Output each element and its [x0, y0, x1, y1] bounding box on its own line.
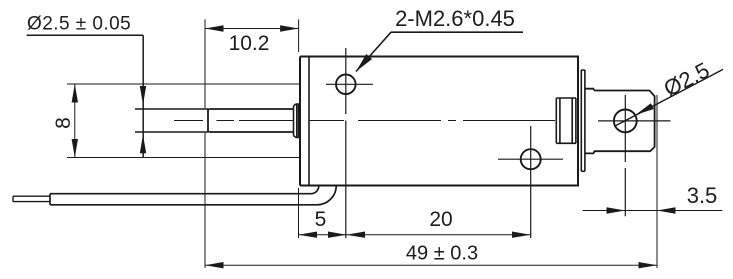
- label 2-M2.6 leader: [356, 32, 523, 71]
- plunger shaft: [208, 109, 294, 132]
- dimension 20: [347, 234, 531, 236]
- dimension 10.2: [205, 19, 299, 268]
- svg-text:Ø2.5 ± 0.05: Ø2.5 ± 0.05: [27, 14, 131, 35]
- svg-text:10.2: 10.2: [229, 32, 270, 55]
- hole M2.6 lower crosshair: [498, 126, 563, 238]
- right plate flange: [581, 70, 585, 171]
- body outline: [300, 57, 578, 186]
- dimension 8 arrows: [72, 84, 78, 158]
- label Ø2.5 right: [660, 57, 714, 101]
- dimension 49 arrows: [205, 262, 657, 268]
- hole M2.6 upper: [336, 75, 356, 95]
- hole Ø2.5 crosshair: [598, 95, 671, 216]
- svg-text:3.5: 3.5: [687, 183, 718, 208]
- hole M2.6 upper crosshair: [326, 48, 373, 238]
- label Ø2.5 right leader arrow: [636, 103, 654, 115]
- dimension 3.5: [583, 210, 723, 212]
- svg-text:2-M2.6*0.45: 2-M2.6*0.45: [395, 6, 515, 31]
- neck washer: [585, 89, 594, 154]
- svg-text:5: 5: [315, 208, 327, 231]
- svg-text:20: 20: [429, 208, 452, 231]
- label 2-M2.6 leader arrow: [356, 54, 372, 72]
- shaft flange washer: [294, 104, 301, 138]
- shaft diameter extension stubs: [135, 109, 208, 132]
- dimension 5: [299, 188, 347, 238]
- label Ø2.5 leader: [27, 35, 144, 157]
- svg-text:8: 8: [52, 117, 75, 129]
- mounting plate left face: [299, 57, 301, 186]
- hole M2.6 lower: [521, 149, 541, 169]
- label Ø2.5 right leader: [615, 69, 724, 126]
- right cylinder: [594, 91, 655, 152]
- dimension 20 arrows: [347, 232, 531, 238]
- lead wire: [50, 186, 336, 205]
- dimension 49 ± 0.3: [205, 95, 657, 268]
- dimension 8: [67, 84, 300, 158]
- svg-text:49 ± 0.3: 49 ± 0.3: [406, 243, 478, 265]
- dimension 3.5 arrows: [607, 207, 676, 213]
- dimension 5 arrows: [299, 232, 347, 238]
- lead wire bare tip: [13, 196, 50, 201]
- dimension 10.2 arrows: [205, 25, 299, 31]
- centerline main: [174, 120, 555, 122]
- label Ø2.5 leader arrows: [140, 86, 146, 153]
- mounting plate right face: [308, 57, 310, 186]
- hole Ø2.5 right: [614, 110, 637, 133]
- rear collar (bobbin flanges): [556, 98, 576, 143]
